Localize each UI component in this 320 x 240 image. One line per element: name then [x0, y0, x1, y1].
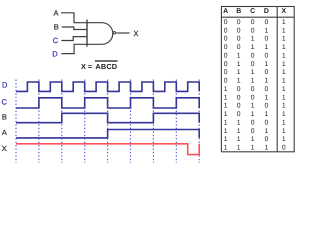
svg-text:0: 0 — [251, 128, 255, 135]
svg-text:1: 1 — [282, 36, 286, 43]
svg-text:1: 1 — [265, 78, 269, 85]
truth table header letters — [223, 8, 286, 15]
svg-text:A: A — [223, 8, 228, 15]
svg-text:C: C — [53, 36, 59, 45]
svg-text:1: 1 — [237, 61, 241, 68]
svg-text:1: 1 — [251, 145, 255, 152]
svg-text:0: 0 — [251, 19, 255, 26]
waveform B — [16, 113, 199, 122]
svg-text:0: 0 — [224, 44, 228, 51]
svg-text:1: 1 — [224, 145, 228, 152]
svg-text:1: 1 — [265, 44, 269, 51]
wire D — [61, 44, 87, 53]
svg-text:1: 1 — [237, 69, 241, 76]
svg-text:0: 0 — [265, 19, 269, 26]
svg-text:1: 1 — [224, 111, 228, 118]
svg-text:1: 1 — [282, 53, 286, 60]
svg-text:1: 1 — [251, 44, 255, 51]
svg-text:0: 0 — [237, 103, 241, 110]
svg-text:0: 0 — [237, 44, 241, 51]
svg-text:0: 0 — [237, 94, 241, 101]
svg-text:0: 0 — [224, 61, 228, 68]
svg-text:0: 0 — [224, 27, 228, 34]
truth table data rows — [224, 19, 286, 152]
svg-text:B: B — [236, 8, 241, 15]
svg-text:1: 1 — [237, 128, 241, 135]
svg-text:1: 1 — [251, 111, 255, 118]
svg-text:1: 1 — [251, 78, 255, 85]
svg-text:X: X — [2, 144, 7, 153]
svg-text:0: 0 — [265, 36, 269, 43]
svg-text:1: 1 — [265, 27, 269, 34]
svg-text:C: C — [1, 97, 7, 106]
svg-text:0: 0 — [224, 78, 228, 85]
svg-text:0: 0 — [251, 53, 255, 60]
svg-text:1: 1 — [282, 27, 286, 34]
nand-gate U1 inversion bubble — [113, 32, 115, 34]
waveform X (red) — [16, 144, 199, 155]
svg-text:ABCD: ABCD — [95, 62, 117, 71]
svg-text:0: 0 — [282, 145, 286, 152]
svg-text:0: 0 — [251, 119, 255, 126]
svg-text:1: 1 — [282, 111, 286, 118]
truth table frame — [221, 7, 294, 152]
svg-text:1: 1 — [265, 111, 269, 118]
svg-text:0: 0 — [265, 119, 269, 126]
svg-text:1: 1 — [282, 94, 286, 101]
svg-text:0: 0 — [237, 27, 241, 34]
svg-text:0: 0 — [265, 69, 269, 76]
svg-text:1: 1 — [265, 145, 269, 152]
svg-text:0: 0 — [265, 103, 269, 110]
svg-text:0: 0 — [251, 27, 255, 34]
waveform A — [16, 130, 199, 138]
svg-text:1: 1 — [237, 145, 241, 152]
svg-text:1: 1 — [237, 53, 241, 60]
nand-gate U1 body — [87, 20, 116, 47]
wire A — [61, 13, 87, 23]
svg-text:1: 1 — [265, 94, 269, 101]
svg-text:D: D — [2, 80, 8, 89]
svg-text:0: 0 — [251, 86, 255, 93]
svg-text:1: 1 — [224, 103, 228, 110]
wire C — [61, 37, 87, 41]
svg-text:0: 0 — [237, 19, 241, 26]
svg-text:D: D — [264, 8, 269, 15]
svg-text:C: C — [250, 8, 255, 15]
truth table header underline — [221, 16, 294, 18]
svg-text:B: B — [2, 113, 7, 122]
svg-text:1: 1 — [265, 61, 269, 68]
svg-text:1: 1 — [224, 86, 228, 93]
svg-text:1: 1 — [282, 86, 286, 93]
svg-text:X: X — [133, 29, 138, 38]
svg-text:1: 1 — [224, 128, 228, 135]
svg-text:1: 1 — [282, 128, 286, 135]
svg-text:0: 0 — [237, 86, 241, 93]
svg-text:A: A — [53, 8, 58, 17]
svg-text:0: 0 — [224, 53, 228, 60]
svg-text:1: 1 — [282, 78, 286, 85]
svg-text:1: 1 — [282, 19, 286, 26]
svg-text:0: 0 — [224, 19, 228, 26]
svg-text:1: 1 — [237, 119, 241, 126]
svg-text:A: A — [2, 128, 7, 137]
wire B — [62, 27, 87, 30]
svg-text:1: 1 — [251, 36, 255, 43]
svg-text:1: 1 — [282, 69, 286, 76]
svg-text:0: 0 — [224, 69, 228, 76]
svg-text:1: 1 — [251, 69, 255, 76]
svg-text:1: 1 — [224, 136, 228, 143]
svg-text:D: D — [52, 49, 58, 58]
truth table column separator — [276, 7, 278, 152]
svg-text:0: 0 — [265, 53, 269, 60]
svg-text:B: B — [54, 23, 59, 32]
svg-text:0: 0 — [251, 94, 255, 101]
svg-text:1: 1 — [282, 44, 286, 51]
svg-text:1: 1 — [282, 103, 286, 110]
svg-text:1: 1 — [237, 78, 241, 85]
wire X output — [116, 32, 129, 34]
equation X = ABCD (overbar) — [81, 61, 118, 71]
svg-text:0: 0 — [237, 36, 241, 43]
svg-text:0: 0 — [265, 86, 269, 93]
svg-text:1: 1 — [224, 94, 228, 101]
svg-text:1: 1 — [224, 119, 228, 126]
svg-text:1: 1 — [251, 136, 255, 143]
svg-text:0: 0 — [224, 36, 228, 43]
timing grid dashed verticals — [16, 80, 199, 164]
waveform C — [16, 98, 199, 108]
svg-text:0: 0 — [265, 136, 269, 143]
svg-text:1: 1 — [282, 119, 286, 126]
svg-text:0: 0 — [237, 111, 241, 118]
svg-text:1: 1 — [265, 128, 269, 135]
svg-text:X: X — [281, 8, 286, 15]
svg-text:1: 1 — [282, 136, 286, 143]
svg-text:1: 1 — [251, 103, 255, 110]
svg-text:1: 1 — [237, 136, 241, 143]
waveform D — [16, 82, 199, 91]
svg-text:X =: X = — [81, 62, 92, 71]
svg-text:1: 1 — [282, 61, 286, 68]
svg-text:0: 0 — [251, 61, 255, 68]
